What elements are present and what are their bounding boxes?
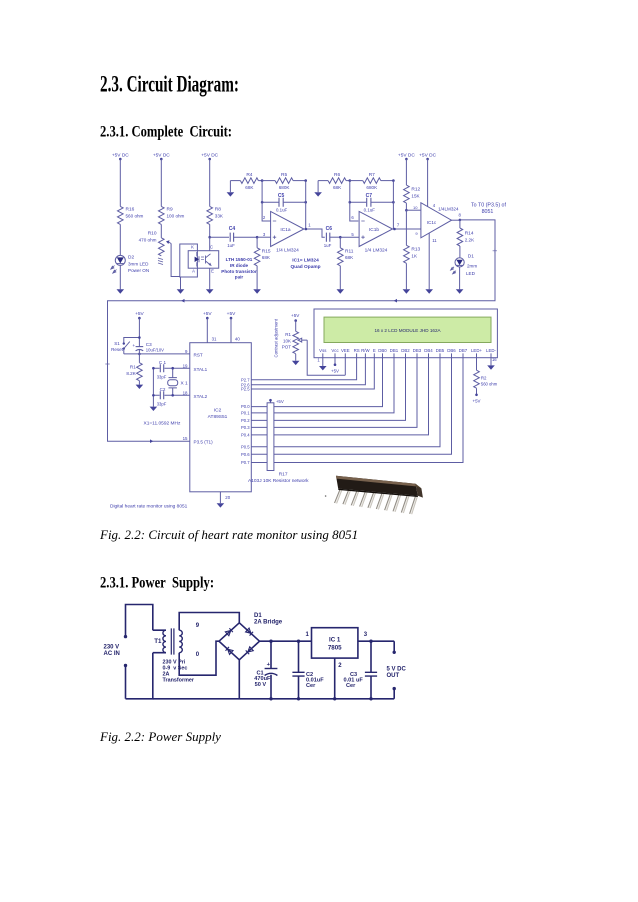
- heading 2.3: [100, 72, 239, 98]
- svg-text:680K: 680K: [366, 185, 378, 190]
- svg-text:33K: 33K: [215, 214, 224, 219]
- wire C6 node to pin5: [340, 236, 359, 238]
- svg-text:R7: R7: [369, 172, 375, 178]
- svg-text:P0.5: P0.5: [241, 444, 250, 449]
- svg-text:1: 1: [308, 223, 311, 228]
- wire D2 to ground: [119, 265, 121, 289]
- svg-text:9: 9: [196, 623, 200, 629]
- power +5V DC rail at x=427.6: [419, 152, 436, 160]
- svg-text:40: 40: [235, 336, 240, 341]
- wire R2 to +5V: [473, 388, 481, 403]
- svg-text:680K: 680K: [279, 185, 291, 190]
- svg-text:P0.6: P0.6: [241, 452, 250, 457]
- svg-text:3mm LED: 3mm LED: [128, 261, 149, 266]
- svg-text:DB6: DB6: [447, 348, 456, 353]
- wire Vcc to +5V: [331, 358, 339, 374]
- svg-text:16: 16: [492, 357, 497, 362]
- svg-text:9: 9: [185, 349, 188, 354]
- svg-text:R14: R14: [465, 231, 474, 237]
- svg-text:0.1uF: 0.1uF: [364, 207, 376, 212]
- capacitor C1 470uF electrolytic: [254, 640, 277, 701]
- svg-text:AT89S51: AT89S51: [208, 414, 228, 420]
- power +5V DC rail at x=120.3: [112, 152, 129, 160]
- svg-text:1uF: 1uF: [324, 243, 332, 248]
- LCD pin DB1: [390, 348, 399, 358]
- svg-text:+5V: +5V: [135, 311, 144, 317]
- label IC1 quad opamp: [290, 258, 320, 270]
- svg-text:2: 2: [338, 663, 342, 669]
- opto phototransistor symbol: [206, 254, 211, 266]
- wire feedback verticals IC1a: [262, 181, 271, 221]
- ground (pin20): [217, 503, 225, 507]
- svg-text:Contrast adjustment: Contrast adjustment: [274, 318, 279, 357]
- svg-text:DB1: DB1: [390, 348, 399, 353]
- wire R15 to ground: [256, 266, 258, 290]
- wire/ground left of R4: [229, 181, 231, 193]
- svg-text:2A Bridge: 2A Bridge: [254, 620, 283, 626]
- svg-text:3: 3: [263, 232, 266, 237]
- svg-text:1uF: 1uF: [227, 243, 235, 248]
- svg-text:5 V DC: 5 V DC: [387, 666, 407, 672]
- opto IR diode symbol: [195, 257, 199, 262]
- svg-text:+5V DC: +5V DC: [398, 152, 415, 158]
- svg-text:1K: 1K: [411, 254, 418, 259]
- heading 2.3.1 complete circuit: [100, 124, 232, 141]
- svg-text:DB3: DB3: [413, 348, 422, 353]
- label opto: [221, 257, 257, 280]
- node C4/R15: [256, 236, 259, 239]
- resistor R1 8.2K: [126, 354, 142, 381]
- resistor network R17 A103J: [248, 399, 309, 484]
- wire P0.6 to LCD data: [251, 358, 451, 455]
- svg-text:Vcc: Vcc: [331, 348, 339, 353]
- svg-text:OUT: OUT: [387, 673, 400, 679]
- svg-text:68K: 68K: [333, 185, 342, 190]
- caption fig 2.2 power supply: [100, 729, 221, 745]
- svg-text:20: 20: [225, 495, 230, 500]
- svg-text:C6: C6: [326, 226, 333, 232]
- capacitor C1 33pF: [157, 360, 167, 379]
- photo of SIP resistor network component: [325, 476, 423, 515]
- wire P0.5 to LCD data: [251, 358, 440, 447]
- bridge rectifier D1 diamond: [219, 623, 260, 660]
- ground (R1): [136, 385, 144, 389]
- svg-text:10: 10: [413, 205, 418, 210]
- svg-text:Quad Opamp: Quad Opamp: [290, 264, 320, 270]
- wire D1 to ground: [459, 267, 461, 289]
- wire P0.4 to LCD data: [251, 358, 428, 435]
- svg-text:Vss: Vss: [319, 348, 327, 353]
- svg-text:pair: pair: [235, 275, 244, 280]
- ground (R13): [403, 289, 411, 293]
- resistor R7: [350, 172, 381, 190]
- svg-text:2mm: 2mm: [467, 263, 477, 268]
- svg-text:68K: 68K: [245, 185, 254, 190]
- wire bridge bottom to rail: [238, 660, 240, 699]
- svg-text:DB2: DB2: [401, 348, 410, 353]
- svg-text:E: E: [373, 348, 376, 353]
- svg-text:P0.7: P0.7: [241, 460, 250, 465]
- svg-text:E: E: [211, 269, 214, 274]
- svg-text:470 ohm: 470 ohm: [139, 238, 157, 243]
- svg-text:33pF: 33pF: [157, 374, 167, 379]
- svg-text:Transformer: Transformer: [163, 678, 195, 684]
- ground (R11): [337, 289, 345, 293]
- LCD pin DB2: [401, 348, 410, 358]
- wire R4 to node: [258, 180, 262, 182]
- svg-text:IC1b: IC1b: [369, 227, 379, 233]
- svg-text:RST: RST: [194, 353, 203, 358]
- wire R1 to ground: [138, 381, 140, 385]
- wire R7 to node: [381, 180, 394, 182]
- wire P0.7 to LCD data: [251, 358, 463, 463]
- svg-text:R5: R5: [281, 172, 287, 178]
- resistor R15: [254, 237, 271, 266]
- label pin15 P3.5: [183, 436, 214, 445]
- svg-text:P0.2: P0.2: [241, 418, 250, 423]
- svg-text:A: A: [192, 269, 195, 274]
- svg-text:RS: RS: [354, 348, 360, 353]
- LCD pin DB3: [413, 348, 422, 358]
- svg-text:6: 6: [351, 215, 354, 220]
- preset R10 470 ohm: [139, 231, 164, 265]
- resistor R16: [118, 206, 144, 224]
- wire preset wiper to opto K: [168, 242, 180, 277]
- wire +5V to R12: [405, 159, 407, 185]
- LED D2 3mm Power ON: [111, 255, 149, 274]
- heading 2.3.1 power supply: [100, 575, 214, 592]
- ground (xtal caps): [150, 407, 158, 411]
- svg-text:2: 2: [263, 215, 266, 220]
- resistor R6: [328, 172, 346, 190]
- svg-text:R9: R9: [167, 207, 173, 213]
- svg-text:Digital heart rate monitor usi: Digital heart rate monitor using 8051: [110, 504, 188, 510]
- wire P0.2 to LCD data: [251, 358, 405, 421]
- svg-text:C2: C2: [160, 387, 166, 392]
- svg-text:DB5: DB5: [436, 348, 445, 353]
- svg-text:R16: R16: [126, 207, 135, 213]
- switch S1 reset: [111, 336, 141, 355]
- op-amp IC1b (1/4 LM324): [351, 211, 392, 246]
- svg-text:Cer: Cer: [306, 683, 316, 689]
- svg-text:8.2K: 8.2K: [126, 371, 136, 376]
- wire DC top rail: [260, 640, 395, 642]
- svg-text:2.2K: 2.2K: [465, 238, 475, 243]
- bridge diode bottom-right: [246, 647, 253, 654]
- wire IC1b output to IC1c pin9: [393, 228, 421, 230]
- potentiometer R1 10K POT (contrast): [282, 313, 301, 361]
- svg-text:+5V DC: +5V DC: [201, 152, 218, 158]
- svg-text:+5V: +5V: [203, 311, 212, 317]
- wire C4 to pin3 node: [234, 236, 258, 238]
- wire node to C4: [210, 236, 229, 238]
- svg-text:XTAL2: XTAL2: [194, 394, 208, 399]
- ground (Vss): [319, 366, 327, 370]
- svg-text:P2.5: P2.5: [241, 387, 250, 392]
- svg-text:P0.1: P0.1: [241, 411, 250, 416]
- svg-text:Photo transistor: Photo transistor: [221, 269, 257, 274]
- LCD pin R/W: [361, 348, 370, 358]
- svg-text:33pF: 33pF: [157, 401, 167, 406]
- wire cap common to ground: [152, 368, 154, 406]
- svg-text:+5V DC: +5V DC: [112, 152, 129, 158]
- svg-text:D2: D2: [128, 255, 134, 261]
- svg-text:15: 15: [183, 436, 188, 441]
- svg-text:POT: POT: [282, 345, 292, 350]
- power +5V stub (reset): [135, 311, 144, 347]
- label D1 2A bridge: [254, 613, 283, 626]
- wire feedback verticals IC1b: [350, 181, 359, 221]
- LCD module 16x2 JHD 162A: [314, 309, 497, 358]
- component pins: [335, 487, 344, 503]
- svg-text:7: 7: [397, 223, 400, 228]
- LED D1 2mm: [451, 254, 478, 276]
- svg-text:AC IN: AC IN: [104, 651, 120, 657]
- svg-text:560 ohm: 560 ohm: [481, 381, 498, 386]
- resistor R5: [262, 172, 293, 190]
- node R12/R13/pin10: [405, 203, 407, 210]
- op-amp IC1c comparator (1/4LM324): [413, 203, 452, 244]
- svg-text:P0.3: P0.3: [241, 425, 250, 430]
- LCD pin RS: [354, 348, 360, 358]
- svg-text:8: 8: [459, 213, 462, 218]
- svg-text:IC1c: IC1c: [427, 220, 437, 225]
- wire R5 to node: [293, 180, 306, 182]
- svg-text:8051: 8051: [482, 209, 494, 215]
- svg-text:Cer: Cer: [346, 683, 356, 689]
- wire R9 to R10: [160, 224, 162, 237]
- svg-text:0.1uF: 0.1uF: [276, 207, 288, 212]
- svg-text:1: 1: [317, 358, 320, 363]
- wire +5V to R16: [119, 159, 121, 206]
- svg-text:LED-: LED-: [486, 348, 496, 353]
- node C6/R11: [339, 236, 342, 239]
- wire opto emitter to ground: [209, 268, 211, 289]
- svg-text:IR diode: IR diode: [230, 263, 249, 268]
- svg-text:4: 4: [433, 203, 436, 208]
- wire P0.0 to LCD data: [251, 358, 382, 407]
- svg-text:DB0: DB0: [378, 348, 387, 353]
- label pin19 XTAL1: [183, 363, 208, 372]
- wire secondary bottom to bridge: [179, 641, 219, 675]
- wire RST line: [124, 353, 190, 355]
- LCD pin DB4: [424, 348, 433, 358]
- svg-text:31: 31: [212, 336, 217, 341]
- svg-text:19: 19: [183, 363, 188, 368]
- label pin 9 / RST: [185, 349, 203, 358]
- capacitor C6 1uF: [324, 226, 332, 248]
- bridge diode bottom-left: [226, 647, 233, 654]
- wire R16 to D2: [119, 224, 121, 255]
- capacitor C3 10uF/10V: [132, 342, 164, 354]
- capacitor C3 0.01uF cer: [344, 640, 378, 701]
- power +5V DC rail at x=161.3: [153, 152, 170, 160]
- svg-text:R17: R17: [279, 472, 288, 478]
- svg-text:C 1: C 1: [159, 360, 167, 365]
- svg-text:R12: R12: [411, 186, 420, 192]
- svg-text:C3: C3: [146, 342, 152, 347]
- svg-text:R6: R6: [334, 172, 340, 178]
- svg-text:1/4LM324: 1/4LM324: [438, 206, 459, 211]
- wire opto anode to ground: [180, 277, 182, 289]
- node R8/C4/opto collector: [208, 236, 211, 239]
- svg-text:P0.4: P0.4: [241, 433, 250, 438]
- wire +5V to R8: [209, 159, 211, 206]
- wire pot wiper to VEE: [298, 338, 345, 375]
- svg-text:R8: R8: [215, 207, 221, 213]
- svg-text:LTH 1550-01: LTH 1550-01: [226, 257, 253, 262]
- bridge diode top-right: [246, 628, 253, 635]
- svg-text:10uF/10V: 10uF/10V: [146, 348, 164, 353]
- svg-text:1/4 LM324: 1/4 LM324: [365, 248, 388, 254]
- svg-text:0: 0: [196, 652, 200, 658]
- LCD pin LED+: [471, 348, 482, 358]
- svg-text:11: 11: [432, 238, 437, 243]
- wire VEE down: [344, 358, 346, 376]
- transformer T1: [153, 628, 183, 654]
- resistor R8: [207, 206, 224, 224]
- svg-text:P0.0: P0.0: [241, 404, 250, 409]
- capacitor C4 1uF: [227, 226, 235, 248]
- resistor R14: [457, 220, 475, 246]
- wire P2.7 to LCD: [251, 358, 356, 380]
- label transformer ratings: [163, 659, 195, 683]
- capacitor C2 33pF: [157, 387, 167, 406]
- power +5V DC rail at x=406.4: [398, 152, 415, 160]
- wire node to pin 10: [406, 209, 421, 211]
- LCD pin VEE: [341, 348, 350, 358]
- svg-text:C7: C7: [366, 193, 373, 199]
- svg-text:68K: 68K: [262, 255, 271, 260]
- svg-text:R13: R13: [411, 247, 420, 253]
- junction tick on vertical wire: [493, 249, 497, 253]
- caption fig 2.2 circuit: [100, 527, 358, 543]
- svg-text:R10: R10: [148, 231, 157, 237]
- wire AC left loop: [126, 605, 153, 699]
- svg-text:IC1= LM324: IC1= LM324: [292, 258, 319, 264]
- svg-text:+5V DC: +5V DC: [153, 152, 170, 158]
- svg-text:+: +: [267, 662, 271, 668]
- label pin18 XTAL2: [183, 390, 208, 399]
- DC output terminals 5V: [387, 641, 407, 699]
- svg-text:DB7: DB7: [459, 348, 468, 353]
- wire +5V to IC1c pin4: [427, 159, 429, 207]
- wire Vss to ground: [322, 358, 324, 366]
- LCD pin DB7: [459, 348, 468, 358]
- wire P2.5 to LCD: [251, 358, 374, 389]
- LCD pin DB0: [378, 348, 387, 358]
- resistor R2 560 ohm: [474, 370, 498, 388]
- ground (D2): [117, 289, 125, 293]
- svg-text:P3.5 (T1): P3.5 (T1): [194, 439, 214, 444]
- svg-text:D1: D1: [468, 254, 474, 260]
- wire output to 8051 P3.5: [108, 220, 496, 441]
- svg-text:10K: 10K: [283, 338, 291, 343]
- resistor R13: [404, 210, 421, 263]
- microcontroller IC2 AT89S51: [190, 343, 252, 492]
- LCD pin Vcc: [331, 348, 339, 358]
- svg-text:S1: S1: [114, 341, 120, 346]
- wire R14 to D1: [459, 246, 461, 257]
- wire XTAL2 line: [153, 394, 189, 396]
- wire XTAL1 line: [153, 367, 189, 369]
- svg-text:+5V: +5V: [227, 311, 236, 317]
- LCD pin Vss: [319, 348, 327, 358]
- svg-text:DB4: DB4: [424, 348, 433, 353]
- svg-text:50 V: 50 V: [255, 682, 267, 688]
- svg-text:IC1a: IC1a: [280, 227, 290, 233]
- resistor R9: [159, 206, 185, 224]
- wire IC1a output: [304, 229, 325, 237]
- wire R6 to node: [346, 180, 350, 182]
- svg-text:C5: C5: [278, 193, 285, 199]
- opto-coupler U1 LTH 1550-01 body: [180, 244, 219, 277]
- svg-text:R2: R2: [481, 375, 487, 380]
- wire secondary top to bridge: [179, 613, 239, 631]
- AC input terminals 230V: [104, 635, 128, 667]
- component body: [336, 476, 418, 496]
- svg-text:1/4 LM324: 1/4 LM324: [276, 248, 299, 254]
- wire +5V to R9: [160, 159, 162, 206]
- svg-text:560 ohm: 560 ohm: [126, 214, 144, 219]
- svg-text:K: K: [191, 245, 194, 250]
- svg-text:3: 3: [364, 632, 368, 638]
- svg-text:A103J 10K Resistor network: A103J 10K Resistor network: [248, 478, 309, 484]
- svg-text:+5V: +5V: [276, 399, 284, 404]
- capacitor C5 0.1uF: [261, 193, 307, 213]
- svg-text:IC 1: IC 1: [329, 636, 341, 643]
- wire P0.3 to LCD data: [251, 358, 417, 428]
- svg-text:5: 5: [351, 232, 354, 237]
- capacitor C2 0.01uF cer: [292, 640, 324, 701]
- op-amp IC1a (1/4 LM324): [263, 211, 304, 246]
- svg-text:X 1: X 1: [181, 381, 189, 387]
- svg-text:1: 1: [306, 632, 310, 638]
- svg-text:R4: R4: [246, 172, 252, 178]
- svg-text:IC2: IC2: [214, 408, 222, 414]
- svg-text:+: +: [132, 344, 135, 349]
- svg-text:XTAL1: XTAL1: [194, 367, 208, 372]
- wire LED+ to R2: [476, 358, 478, 371]
- svg-text:R11: R11: [345, 248, 354, 254]
- svg-text:Power ON: Power ON: [128, 268, 149, 273]
- tick on left wire: [105, 363, 109, 365]
- svg-text:R1: R1: [285, 332, 291, 337]
- wire R8 to node: [209, 224, 211, 237]
- svg-text:R/W: R/W: [361, 348, 370, 353]
- wire IC1 pin2 to rail: [334, 658, 336, 699]
- ground (opto anode): [177, 289, 185, 293]
- svg-text:100 ohm: 100 ohm: [167, 214, 185, 219]
- LCD pin E: [373, 348, 376, 358]
- svg-text:68K: 68K: [345, 255, 354, 260]
- svg-text:To T0 (P3.5) of: To T0 (P3.5) of: [471, 203, 506, 209]
- svg-text:+5V: +5V: [291, 313, 300, 318]
- LCD pin LED-: [486, 348, 496, 358]
- capacitor C7 0.1uF: [349, 193, 395, 213]
- svg-text:R15: R15: [262, 248, 271, 254]
- wire LED- to ground: [490, 358, 492, 366]
- wire R11 to ground: [339, 266, 341, 290]
- power +5V stub (pin40): [227, 311, 236, 343]
- svg-text:T1: T1: [154, 638, 162, 645]
- label To T0 of 8051: [471, 203, 506, 216]
- svg-text:R1: R1: [130, 364, 136, 369]
- svg-text:Reset: Reset: [111, 347, 124, 352]
- svg-text:230 V: 230 V: [104, 645, 120, 651]
- ground (D1): [456, 289, 464, 293]
- ground (LED-): [487, 365, 495, 369]
